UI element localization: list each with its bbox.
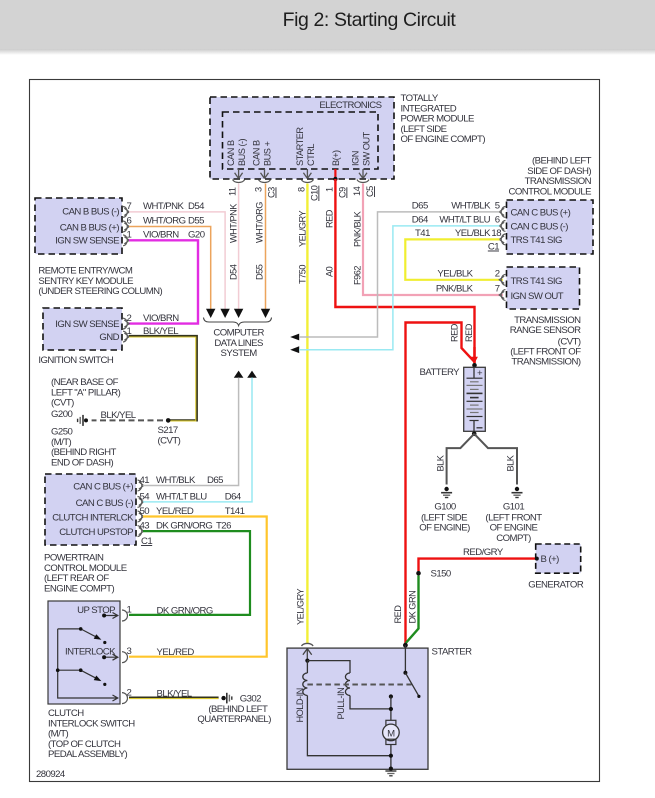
label TOTALLY INTEGRATED POWER MODULE [401, 93, 486, 145]
svg-text:TRANSMISSION): TRANSMISSION) [511, 357, 580, 368]
svg-text:M: M [387, 728, 395, 739]
svg-text:VIO/BRN: VIO/BRN [143, 313, 179, 324]
connector symbol remote pin 1 [123, 235, 129, 246]
pin arrow TIPM pin 3 [261, 169, 269, 179]
svg-text:RED: RED [464, 323, 474, 342]
wire BLK battery to G101 [474, 434, 517, 485]
wire label D64 WHT/LT BLU + pin number 6 [412, 214, 500, 225]
svg-text:CAN B: CAN B [226, 140, 236, 166]
svg-text:D64: D64 [412, 214, 429, 225]
svg-text:14: 14 [352, 186, 362, 196]
pin label IGN SW OUT (TIPM pin 14) [351, 131, 372, 166]
connector symbol ignition pin 1 [123, 331, 129, 342]
svg-text:HOLD-IN: HOLD-IN [295, 688, 305, 722]
node data lines left-arrow D65 [290, 334, 299, 341]
node data lines down-arrow 3 [234, 309, 243, 318]
svg-text:T41: T41 [415, 228, 430, 239]
svg-text:C1: C1 [141, 536, 152, 547]
svg-text:ELECTRONICS: ELECTRONICS [319, 100, 381, 111]
svg-text:WHT/PNK: WHT/PNK [143, 201, 185, 212]
svg-text:DK GRN: DK GRN [408, 591, 418, 624]
svg-text:(CVT): (CVT) [51, 398, 74, 409]
pin number 2 + wire label BLK/YEL [127, 687, 193, 699]
svg-text:G100: G100 [434, 502, 455, 513]
svg-text:8: 8 [296, 187, 306, 192]
svg-text:RED/GRY: RED/GRY [463, 547, 504, 558]
wire WHT/ORG D55 from TIPM pin3 [265, 184, 267, 310]
svg-text:IGN SW SENSE: IGN SW SENSE [55, 319, 119, 330]
pin number 41 + wire label WHT/BLK D65 [140, 475, 224, 486]
connector symbol TCM pin 18 [499, 234, 505, 245]
svg-text:YEL/BLK: YEL/BLK [437, 268, 473, 279]
pin label CAN B BUS (-) (TIPM pin 11) [226, 138, 247, 166]
connector cup clutch pin 2 [122, 693, 128, 704]
wire label VIO/BRN G20 [143, 230, 205, 241]
svg-text:RED: RED [393, 605, 403, 624]
svg-text:YEL/RED: YEL/RED [157, 647, 195, 658]
svg-text:WHT/ORG: WHT/ORG [143, 216, 186, 227]
svg-text:T141: T141 [225, 506, 245, 517]
svg-text:WHT/BLK: WHT/BLK [451, 200, 491, 211]
svg-text:280924: 280924 [36, 769, 66, 780]
wire DK GRN/ORG T26 PCM pin43 to clutch switch pin1 [129, 531, 250, 615]
svg-text:SYSTEM: SYSTEM [221, 348, 258, 359]
svg-text:B(+): B(+) [331, 150, 341, 166]
svg-text:D54: D54 [229, 264, 239, 280]
svg-text:54: 54 [140, 491, 151, 502]
svg-text:CAN B: CAN B [252, 140, 262, 166]
label G200 block [51, 377, 121, 420]
svg-text:G101: G101 [503, 502, 524, 513]
svg-text:OF ENGINE COMPT): OF ENGINE COMPT) [401, 134, 486, 145]
svg-text:IGNITION SWITCH: IGNITION SWITCH [38, 355, 114, 366]
module TRS TRANSMISSION RANGE SENSOR [507, 267, 580, 309]
connector cup TIPM pin 14 [357, 180, 369, 183]
svg-text:T26: T26 [216, 521, 231, 532]
svg-text:BUS +: BUS + [263, 142, 273, 166]
starter switch SW [403, 645, 420, 698]
module U1 TIPM inner ELECTRONICS box [223, 112, 379, 169]
svg-text:D55: D55 [255, 264, 265, 280]
svg-text:QUARTERPANEL): QUARTERPANEL) [197, 714, 271, 725]
svg-text:CAN B BUS (+): CAN B BUS (+) [60, 223, 120, 234]
svg-text:CTRL: CTRL [306, 144, 316, 166]
label G100 (LEFT SIDE OF ENGINE) [419, 502, 470, 534]
wire label WHT/ORG D55 [143, 216, 204, 227]
wire WHT/PNK D54 from TIPM pin11 [238, 184, 240, 310]
connector symbol PCM pin 41 [138, 480, 144, 491]
battery cell plates [467, 378, 483, 420]
svg-text:YEL/RED: YEL/RED [156, 506, 194, 517]
pin number 43 + wire label DK GRN/ORG T26 [140, 521, 232, 532]
connector symbol remote pin 7 [123, 207, 129, 218]
svg-text:B (+): B (+) [541, 554, 560, 565]
connector cup clutch pin 3 [122, 652, 128, 663]
ground G302 [197, 693, 271, 725]
label REMOTE ENTRY/WCM SENTRY KEY MODULE (UNDER STEERING COLUMN) [38, 266, 162, 298]
svg-text:PEDAL ASSEMBLY): PEDAL ASSEMBLY) [48, 749, 128, 760]
wire WHT/ORG remote pin6 to data-lines arrow [129, 227, 211, 310]
title bar [0, 0, 655, 55]
svg-text:PULL-IN: PULL-IN [336, 688, 346, 720]
switch contact dots [56, 614, 107, 687]
svg-text:IGN: IGN [351, 151, 361, 166]
svg-text:RANGE SENSOR: RANGE SENSOR [510, 325, 581, 336]
svg-text:2: 2 [127, 313, 132, 324]
svg-text:WHT/LT BLU: WHT/LT BLU [156, 491, 207, 502]
wire label D65 WHT/BLK + pin number 5 [412, 200, 500, 211]
svg-text:5: 5 [495, 200, 500, 211]
battery B1 [464, 363, 486, 431]
wire RED/GRY generator to S150 [419, 559, 537, 571]
svg-text:S150: S150 [431, 569, 451, 580]
pin number 1 + wire label DK GRN/ORG [127, 604, 213, 616]
module TCM TRANSMISSION CONTROL MODULE [507, 156, 594, 255]
svg-text:6: 6 [127, 216, 132, 227]
svg-text:PNK/BLK: PNK/BLK [353, 210, 363, 247]
pin label STARTER CTRL (TIPM pin 8) [295, 127, 316, 166]
motor M1 [383, 720, 400, 744]
ground G100 [441, 487, 452, 498]
connector symbol TCM pin 5 [499, 207, 505, 218]
node data lines left-arrow D64 [290, 346, 299, 353]
wire YEL/GRY T750 TIPM pin8 to starter [306, 184, 308, 644]
svg-text:CAN C BUS (+): CAN C BUS (+) [73, 482, 133, 493]
svg-text:3: 3 [127, 646, 132, 657]
svg-text:C3: C3 [267, 187, 277, 198]
node data lines up-arrow D64 [247, 371, 257, 378]
connector cup TIPM pin 3 [259, 180, 271, 183]
wire label YEL/BLK + pin number 2 [437, 268, 499, 279]
svg-text:T750: T750 [297, 265, 307, 284]
module PCM POWERTRAIN CONTROL MODULE [45, 474, 136, 545]
node battery negative junction [472, 432, 477, 437]
connector symbol TRS pin 7 [499, 290, 505, 301]
wire BLK battery to G100 [447, 434, 475, 485]
svg-text:VIO/BRN: VIO/BRN [143, 230, 179, 241]
svg-text:SW OUT: SW OUT [362, 131, 372, 166]
svg-text:RED: RED [449, 323, 459, 342]
svg-text:GND: GND [99, 332, 119, 343]
svg-text:50: 50 [140, 506, 150, 517]
svg-text:Fig 2: Starting Circuit: Fig 2: Starting Circuit [283, 9, 457, 31]
svg-text:G200: G200 [51, 409, 72, 420]
svg-text:2: 2 [495, 268, 500, 279]
switch internal wiring [58, 613, 118, 702]
splice S150 [416, 569, 451, 580]
svg-text:YEL/GRY: YEL/GRY [296, 588, 306, 625]
svg-text:STARTER: STARTER [295, 127, 305, 166]
svg-text:CLUTCH UPSTOP: CLUTCH UPSTOP [59, 527, 133, 538]
entry arrow into starter [303, 648, 312, 661]
node data lines down-arrow 4 [261, 309, 270, 318]
svg-text:(UNDER STEERING COLUMN): (UNDER STEERING COLUMN) [38, 286, 162, 297]
svg-text:41: 41 [140, 475, 150, 486]
svg-text:1: 1 [127, 604, 132, 615]
node TIPM pin1 B(+) junction dot [333, 169, 337, 181]
svg-text:TRS T41 SIG: TRS T41 SIG [511, 276, 562, 287]
pin arrow TIPM pin 8 [303, 169, 311, 179]
wire BLK/YEL clutch pin2 to G302 [129, 698, 219, 699]
svg-text:CLUTCH INTERLCK: CLUTCH INTERLCK [52, 512, 134, 523]
svg-text:D65: D65 [412, 200, 428, 211]
svg-text:BUS (-): BUS (-) [237, 138, 247, 166]
module GENERATOR [528, 544, 584, 591]
svg-text:END OF DASH): END OF DASH) [51, 457, 114, 468]
wire BLK/YEL ignition GND to S217 [129, 336, 197, 421]
pin arrow TIPM pin 11 [235, 169, 243, 179]
wire label WHT/PNK D54 [143, 201, 205, 212]
svg-text:CAN B BUS (-): CAN B BUS (-) [62, 207, 119, 218]
label G101 (LEFT FRONT OF ENGINE COMPT) [485, 502, 542, 544]
pin number 54 + wire label WHT/LT BLU D64 [140, 491, 242, 502]
svg-text:F962: F962 [353, 266, 363, 285]
connector symbol ignition pin 2 [123, 318, 129, 329]
svg-text:D64: D64 [225, 491, 242, 502]
node switch contact [389, 694, 393, 720]
pin label CAN B BUS + (TIPM pin 3) [252, 140, 273, 166]
node starter solenoid feed junction [305, 659, 309, 663]
svg-text:RED: RED [324, 209, 334, 228]
svg-text:C9: C9 [337, 187, 347, 198]
node data lines down-arrow 2 [220, 309, 229, 318]
module STARTER [287, 648, 428, 769]
svg-text:GENERATOR: GENERATOR [528, 580, 584, 591]
svg-text:BLK: BLK [436, 454, 446, 471]
wire label T41 YEL/BLK + pin number 18 [415, 228, 501, 239]
wire WHT/LT BLU D64 TCM pin6 to data lines [299, 226, 500, 350]
wire RED battery to starter junction [473, 347, 475, 363]
svg-text:WHT/BLK: WHT/BLK [156, 475, 196, 486]
wire VIO/BRN remote pin1 to ignition switch pin2 [129, 240, 198, 323]
label G250 block [51, 427, 116, 469]
svg-text:YEL/GRY: YEL/GRY [297, 210, 307, 247]
wire YEL/RED T141 PCM pin50 to clutch switch pin3 [129, 517, 267, 657]
svg-text:1: 1 [324, 187, 334, 192]
svg-text:C5: C5 [365, 186, 375, 197]
svg-text:IGN SW SENSE: IGN SW SENSE [55, 236, 119, 247]
connector symbol PCM pin 54 [138, 497, 144, 508]
switch arm arrowheads [94, 634, 102, 640]
svg-text:D65: D65 [207, 475, 223, 486]
hold-in coil L1 [303, 661, 391, 756]
module CLUTCH INTERLOCK SWITCH [48, 601, 120, 704]
label POWERTRAIN CONTROL MODULE [44, 553, 127, 595]
wire RED A0 TIPM pin1 to battery [335, 179, 474, 363]
svg-text:WHT/PNK: WHT/PNK [229, 203, 239, 243]
svg-text:OF ENGINE): OF ENGINE) [419, 523, 470, 534]
node data lines up-arrow D65 [234, 371, 244, 378]
svg-text:7: 7 [495, 284, 500, 295]
svg-text:IGN SW OUT: IGN SW OUT [511, 291, 564, 302]
wire YEL/BLK T41 TCM pin18 to TRS pin2 [405, 239, 503, 279]
svg-text:TRS T41 SIG: TRS T41 SIG [511, 235, 562, 246]
pin number 3 + wire label YEL/RED [127, 646, 195, 658]
wire BLK/YEL dashed S217 to G200 [92, 419, 163, 421]
svg-text:CAN C BUS (-): CAN C BUS (-) [511, 222, 569, 233]
svg-text:11: 11 [228, 187, 238, 196]
pin arrow TIPM pin 14 [359, 169, 367, 179]
svg-text:C1: C1 [488, 242, 499, 253]
wire motor to ground [389, 745, 393, 770]
svg-text:CAN C BUS (+): CAN C BUS (+) [511, 208, 571, 219]
connector cup TIPM pin 8 [301, 180, 313, 183]
connector symbol PCM pin 50 [138, 511, 144, 522]
svg-text:D54: D54 [188, 201, 205, 212]
brace computer data lines [204, 318, 272, 326]
svg-text:18: 18 [491, 228, 501, 239]
connector cup starter yel/gry entry [302, 643, 314, 646]
svg-text:C10: C10 [309, 185, 319, 201]
svg-text:BATTERY: BATTERY [419, 367, 460, 378]
node starter B+ junction [403, 643, 408, 648]
net COMPUTER DATA LINES SYSTEM [213, 328, 264, 360]
svg-text:BLK/YEL: BLK/YEL [101, 410, 137, 421]
svg-text:INTERLOCK: INTERLOCK [65, 647, 116, 658]
svg-text:(CVT): (CVT) [158, 435, 181, 446]
wire to pull-in coil [307, 661, 350, 673]
svg-text:WHT/LT BLU: WHT/LT BLU [439, 214, 490, 225]
svg-text:CONTROL MODULE: CONTROL MODULE [508, 186, 591, 197]
connector cup clutch pin 1 [122, 610, 128, 621]
pull-in coil L2 [345, 673, 391, 709]
svg-text:7: 7 [127, 201, 132, 212]
svg-text:BLK: BLK [506, 454, 516, 471]
ground starter [385, 767, 396, 776]
svg-text:WHT/ORG: WHT/ORG [255, 202, 265, 243]
splice S217 [158, 418, 181, 446]
connector symbol remote pin 6 [123, 221, 129, 232]
wire WHT/BLK D65 PCM pin41 to data lines [143, 378, 239, 486]
svg-text:43: 43 [140, 521, 150, 532]
wire WHT/PNK remote pin7 to data-lines arrow [129, 212, 225, 309]
svg-text:PNK/BLK: PNK/BLK [436, 284, 474, 295]
module IGNITION SWITCH [43, 308, 122, 350]
ground G200 [78, 415, 88, 426]
svg-text:STARTER: STARTER [432, 647, 473, 658]
svg-text:A0: A0 [324, 266, 334, 277]
wire WHT/LT BLU D64 PCM pin54 to data lines [143, 378, 252, 502]
diagram frame [30, 80, 600, 782]
svg-text:3: 3 [254, 187, 264, 192]
svg-text:COMPT): COMPT) [496, 533, 531, 544]
label TRANSMISSION RANGE SENSOR (CVT) [510, 315, 581, 368]
svg-text:YEL/BLK: YEL/BLK [455, 228, 491, 239]
wire DK GRN S150 to starter junction [406, 576, 419, 644]
connector symbol PCM pin 43 [138, 526, 144, 537]
module U1 TIPM (TOTALLY INTEGRATED POWER MODULE) outer box [210, 97, 394, 179]
wire WHT/BLK D65 TCM pin5 to data lines [299, 212, 500, 337]
svg-text:6: 6 [495, 214, 500, 225]
connector symbol TRS pin 2 [499, 274, 505, 285]
label CLUTCH INTERLOCK SWITCH (M/T) [48, 708, 135, 760]
pin number 50 + wire label YEL/RED T141 [140, 506, 245, 517]
svg-text:DK GRN/ORG: DK GRN/ORG [156, 521, 212, 532]
svg-text:CAN C BUS (-): CAN C BUS (-) [76, 498, 134, 509]
ground G101 [512, 487, 523, 498]
node data lines down-arrow 1 [206, 309, 215, 318]
svg-text:1: 1 [127, 230, 132, 241]
mechanical linkage dashed line [307, 684, 411, 686]
svg-text:UP STOP: UP STOP [77, 605, 115, 616]
wire label PNK/BLK + pin number 7 [436, 284, 500, 295]
connector cup TIPM pin 11 [233, 180, 245, 183]
svg-text:G20: G20 [188, 230, 205, 241]
module REMOTE ENTRY/WCM SENTRY KEY MODULE [35, 198, 122, 254]
connector symbol TCM pin 6 [499, 221, 505, 232]
svg-text:ENGINE COMPT): ENGINE COMPT) [44, 583, 114, 594]
wire PNK/BLK F962 TIPM pin14 to TRS pin7 [363, 184, 503, 296]
svg-text:D55: D55 [188, 216, 204, 227]
svg-text:DK GRN/ORG: DK GRN/ORG [157, 605, 213, 616]
node red arrowhead at battery [471, 357, 478, 364]
